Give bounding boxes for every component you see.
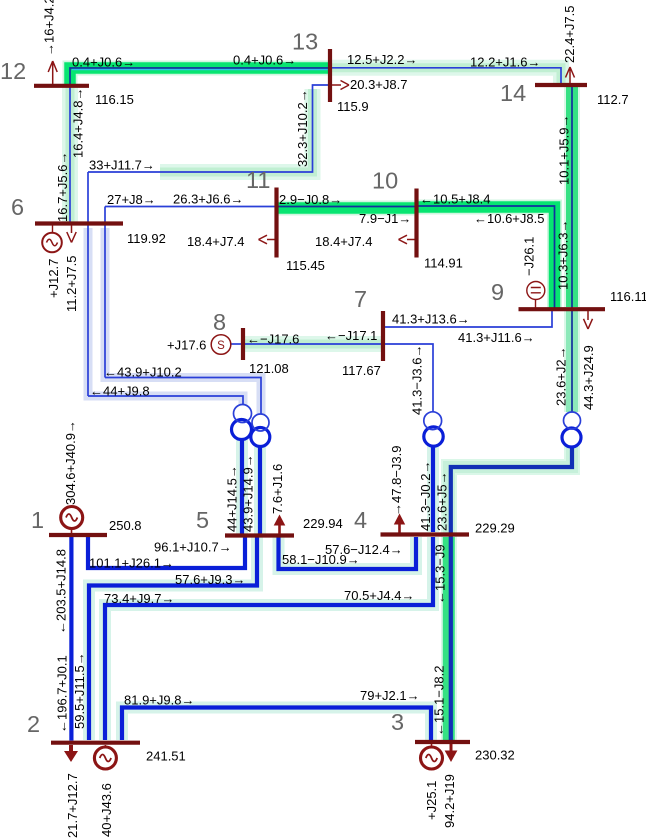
svg-text:14: 14 [500,80,526,106]
svg-text:115.9: 115.9 [337,99,369,114]
svg-text:26.3+J6.6→: 26.3+J6.6→ [173,192,243,207]
svg-text:←44+J9.8: ←44+J9.8 [90,384,150,399]
svg-text:10: 10 [372,168,398,194]
svg-text:18.4+J7.4: 18.4+J7.4 [315,234,372,249]
svg-text:117.67: 117.67 [342,363,381,378]
svg-text:12: 12 [0,58,26,84]
svg-text:7.6+J1.6: 7.6+J1.6 [270,464,285,514]
svg-text:13: 13 [292,29,318,55]
svg-text:5: 5 [196,507,209,533]
svg-text:10.3+J6.3→: 10.3+J6.3→ [556,220,571,290]
svg-text:→47.8−J3.9: →47.8−J3.9 [389,446,404,516]
svg-text:2: 2 [27,711,40,737]
svg-text:229.29: 229.29 [475,521,515,536]
svg-text:←10.6+J8.5: ←10.6+J8.5 [474,211,544,226]
svg-text:21.7+J12.7: 21.7+J12.7 [65,773,80,838]
svg-text:73.4+J9.7→: 73.4+J9.7→ [104,591,174,606]
svg-text:4: 4 [354,507,367,533]
svg-text:116.15: 116.15 [95,92,134,107]
svg-text:94.2+J19: 94.2+J19 [442,774,457,828]
svg-text:41.3−J3.6→: 41.3−J3.6→ [410,345,425,415]
svg-text:←−J17.6: ←−J17.6 [247,332,299,347]
svg-text:250.8: 250.8 [109,518,142,533]
svg-text:←15.3−J9: ←15.3−J9 [433,544,448,604]
svg-text:←43.9+J10.2: ←43.9+J10.2 [104,365,182,380]
svg-text:3: 3 [391,709,404,735]
svg-text:20.3+J8.7: 20.3+J8.7 [350,77,407,92]
svg-text:18.4+J7.4: 18.4+J7.4 [187,234,244,249]
svg-text:79+J2.1→: 79+J2.1→ [360,688,420,703]
svg-text:116.11: 116.11 [610,289,646,304]
svg-text:−J26.1: −J26.1 [522,237,537,276]
svg-text:41.3+J11.6→: 41.3+J11.6→ [458,330,535,345]
svg-text:33+J11.7→: 33+J11.7→ [89,158,155,173]
svg-text:←−J17.1: ←−J17.1 [325,328,377,343]
svg-text:10.1+J5.9→: 10.1+J5.9→ [557,115,572,185]
svg-text:59.5+J11.5→: 59.5+J11.5→ [72,652,87,729]
svg-text:114.91: 114.91 [424,256,463,271]
svg-text:241.51: 241.51 [146,749,186,764]
svg-text:57.6+J9.3→: 57.6+J9.3→ [175,572,245,587]
svg-text:112.7: 112.7 [597,92,629,107]
svg-text:96.1+J10.7→: 96.1+J10.7→ [154,540,232,555]
svg-text:9: 9 [491,279,504,305]
svg-text:81.9+J9.8→: 81.9+J9.8→ [124,693,194,708]
svg-text:27+J8→: 27+J8→ [107,192,156,207]
svg-text:32.3+J10.2→: 32.3+J10.2→ [295,89,310,167]
svg-text:121.08: 121.08 [249,361,289,376]
svg-text:16.4+J4.8→: 16.4+J4.8→ [71,88,86,158]
svg-text:←15.1−J8.2: ←15.1−J8.2 [432,666,447,736]
svg-text:0.4+J0.6→: 0.4+J0.6→ [233,53,296,68]
svg-text:43.9+J14.9→: 43.9+J14.9→ [241,454,256,532]
svg-text:2.9−J0.8→: 2.9−J0.8→ [279,192,342,207]
svg-text:7: 7 [354,286,367,312]
svg-text:44.3+J24.9: 44.3+J24.9 [581,345,596,410]
svg-text:115.45: 115.45 [286,258,325,273]
svg-text:40+J43.6: 40+J43.6 [99,783,114,837]
svg-text:←203.5+J14.8: ←203.5+J14.8 [54,549,69,634]
svg-text:23.6+J2→: 23.6+J2→ [554,346,569,406]
svg-text:7.9−J1→: 7.9−J1→ [359,211,411,226]
svg-text:41.3−J0.2→: 41.3−J0.2→ [418,461,433,531]
svg-text:119.92: 119.92 [127,231,166,246]
svg-text:←10.5+J8.4: ←10.5+J8.4 [420,192,490,207]
svg-text:44+J14.5→: 44+J14.5→ [225,465,240,532]
svg-text:1: 1 [31,507,44,533]
svg-text:+J25.1: +J25.1 [424,781,439,820]
svg-text:16.7+J5.6→: 16.7+J5.6→ [55,152,70,222]
svg-text:230.32: 230.32 [475,748,515,763]
svg-text:41.3+J13.6→: 41.3+J13.6→ [392,312,470,327]
svg-text:←196.7+J0.1: ←196.7+J0.1 [55,655,70,733]
svg-text:12.2+J1.6→: 12.2+J1.6→ [470,55,540,70]
svg-text:6: 6 [11,194,24,220]
svg-text:23.6+J5→: 23.6+J5→ [435,471,450,531]
svg-text:→16+J4.2: →16+J4.2 [42,0,57,56]
svg-text:S: S [217,340,225,352]
svg-text:0.4+J0.6→: 0.4+J0.6→ [72,55,135,70]
svg-text:+J12.7: +J12.7 [46,259,61,298]
svg-text:101.1+J26.1→: 101.1+J26.1→ [89,556,174,571]
svg-text:229.94: 229.94 [303,516,343,531]
svg-text:304.6+J40.9→: 304.6+J40.9→ [63,420,78,505]
svg-text:70.5+J4.4→: 70.5+J4.4→ [344,588,414,603]
svg-text:8: 8 [213,309,226,335]
svg-text:12.5+J2.2→: 12.5+J2.2→ [347,52,417,67]
svg-text:+J17.6: +J17.6 [167,338,206,353]
svg-text:22.4+J7.5: 22.4+J7.5 [562,6,577,63]
svg-text:11.2+J7.5: 11.2+J7.5 [64,255,79,312]
svg-text:11: 11 [246,167,270,193]
svg-text:58.1−J10.9→: 58.1−J10.9→ [282,552,360,567]
